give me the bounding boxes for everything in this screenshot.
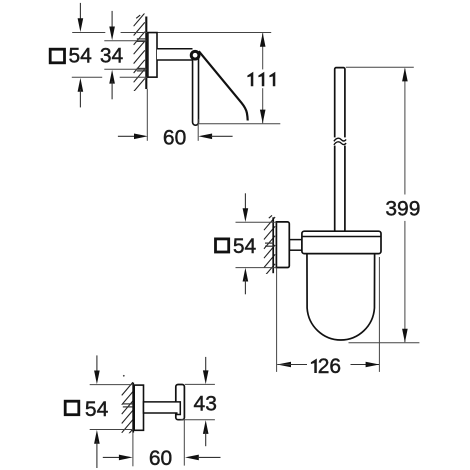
mounting plate (hook) xyxy=(134,385,143,430)
concealed fixing marks (hook) xyxy=(123,404,133,407)
extension line 54 top / 111 top xyxy=(72,32,271,34)
square symbol for 54 (hook) xyxy=(65,401,79,415)
wall hatching (hook wall) xyxy=(122,382,133,442)
dimension arrow 54 bottom (hook) xyxy=(94,430,100,468)
pivot (paper holder) xyxy=(191,51,199,59)
dimension arrow 54 top xyxy=(78,3,84,32)
extension line 54 top (hook) xyxy=(90,384,134,386)
svg-text:399: 399 xyxy=(385,198,420,221)
extension line 54 bottom (brush) xyxy=(236,267,277,269)
wall hatching (paper holder wall) xyxy=(134,13,145,92)
dimension 111 arrowheads xyxy=(260,33,266,47)
svg-text:54: 54 xyxy=(85,398,109,421)
extension line 54 bottom xyxy=(72,76,148,78)
extension line 126 left (wall) xyxy=(276,268,278,372)
svg-text:60: 60 xyxy=(149,447,172,470)
mounting plate (brush) xyxy=(276,222,289,268)
concealed fixing marks (paper holder) xyxy=(137,39,146,71)
extension line 34 top xyxy=(104,40,146,42)
svg-text:34: 34 xyxy=(100,44,124,67)
dimension arrow 43 bottom xyxy=(203,420,209,446)
arm (brush) xyxy=(289,240,302,251)
dimension arrow 54 top (hook) xyxy=(94,355,100,384)
dimension arrow 54 top (brush) xyxy=(243,193,249,222)
handle break symbol xyxy=(333,137,346,145)
roller bar (paper holder) xyxy=(193,56,199,126)
extension tick for 60 right (roller bar edge) xyxy=(197,119,199,141)
extension line 54 bottom (hook) xyxy=(90,429,134,431)
dimension 60 (hook) xyxy=(103,455,221,461)
svg-text:54: 54 xyxy=(68,44,92,67)
wall line (hook) xyxy=(132,383,134,433)
dimension 399 arrowheads xyxy=(402,68,408,82)
svg-text:43: 43 xyxy=(194,392,217,415)
brush handle xyxy=(335,68,345,232)
ring rim line xyxy=(302,236,380,238)
svg-text:60: 60 xyxy=(163,127,186,150)
svg-text:26: 26 xyxy=(318,355,341,378)
dimension arrow 34 bottom xyxy=(109,70,115,100)
square symbol for 54 xyxy=(50,49,64,63)
dimension 399 vertical line xyxy=(404,69,406,343)
wall extension line down to 60-dim xyxy=(146,89,148,141)
extension line 34 bottom xyxy=(104,68,146,70)
stray dot above hook wall xyxy=(123,375,125,377)
arm (paper holder) xyxy=(157,49,193,59)
glass cup (brush) xyxy=(307,253,375,340)
dimension 60 (paper holder) xyxy=(118,134,233,140)
extension line 399 top xyxy=(346,66,414,68)
dimension 111 vertical line xyxy=(262,33,264,123)
arm (hook) xyxy=(144,402,181,415)
extension line 60 right (hook edge) xyxy=(183,420,185,466)
dimension arrow 54 bottom (brush) xyxy=(243,268,249,295)
extension line 43 bottom xyxy=(181,419,215,421)
extension line 399 bottom xyxy=(349,342,420,344)
hook body xyxy=(176,385,185,420)
svg-text:54: 54 xyxy=(233,235,257,258)
label 126 xyxy=(311,355,341,378)
dimension 126 xyxy=(277,362,379,368)
dimension arrow 54 bottom xyxy=(78,78,84,108)
dimension arrow 34 top xyxy=(109,11,115,40)
wall hatching (brush wall) xyxy=(264,215,275,277)
mounting plate (paper holder) xyxy=(148,33,157,78)
extension line 126 right (ring edge) xyxy=(378,257,380,372)
extension line 43 top xyxy=(185,383,215,385)
cover flap (paper holder) xyxy=(199,51,248,120)
concealed fixing marks (brush) xyxy=(265,243,274,246)
extension line 54 top (brush) xyxy=(236,221,277,223)
extension line 111 bottom xyxy=(199,123,281,125)
wall line (brush) xyxy=(272,217,274,273)
square symbol for 54 (brush) xyxy=(216,239,229,252)
wall line (paper holder) xyxy=(145,17,147,90)
dimension arrow 43 top xyxy=(203,357,209,384)
wall extension line down (hook 60 dim) xyxy=(132,433,134,467)
holder ring (brush) xyxy=(302,231,381,253)
label 111 xyxy=(247,72,275,87)
